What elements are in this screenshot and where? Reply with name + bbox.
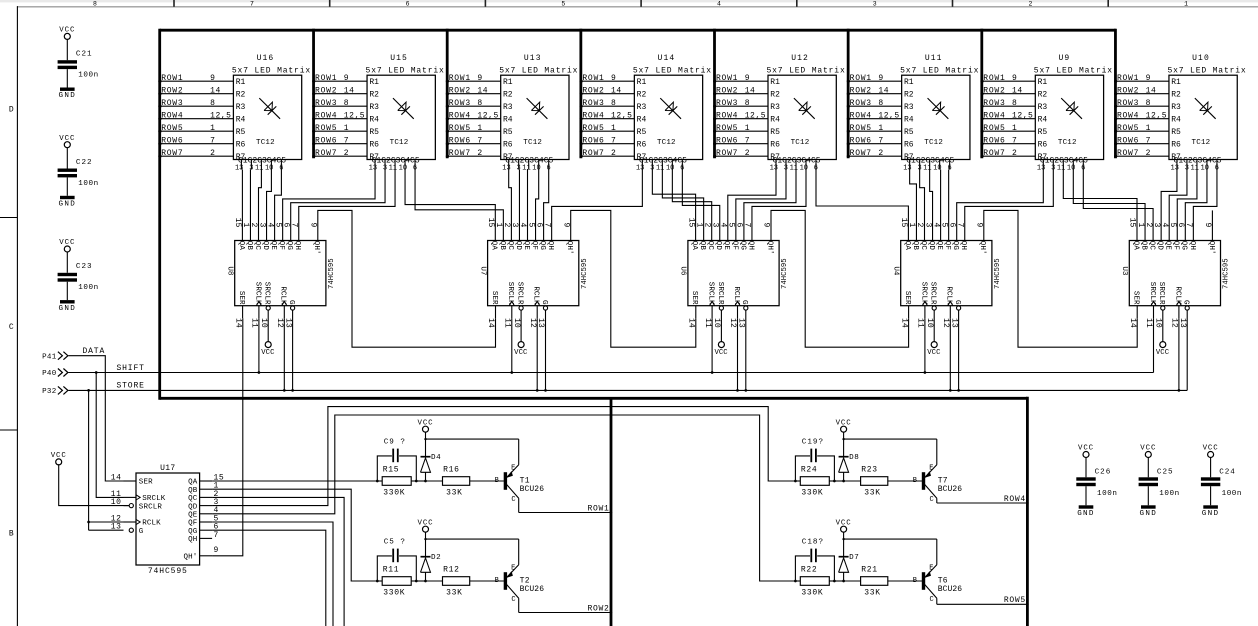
svg-text:9: 9 [1203,223,1212,228]
svg-text:9: 9 [210,74,215,83]
pin U8 SRCLR with bubble to VCC [261,306,275,357]
wire U17 QE to T6 input [212,415,795,581]
svg-text:SER: SER [1132,291,1140,305]
svg-text:33K: 33K [446,588,463,597]
svg-text:QE: QE [722,241,730,251]
svg-text:33K: 33K [446,488,463,497]
svg-text:R3: R3 [369,103,379,112]
svg-text:U12: U12 [791,54,809,63]
transistor T2 BCU26 PNP [495,564,545,604]
svg-text:U10: U10 [1192,54,1210,63]
pin stub U9 C5 [1082,160,1084,170]
frame column ticks [173,0,175,7]
svg-text:ROW6: ROW6 [1117,136,1139,145]
wire U12 C1 to U6 QE [728,170,776,241]
svg-text:E: E [929,464,933,472]
svg-text:R3: R3 [1171,103,1181,112]
wire ROW1 to U9 R1 [980,74,1047,87]
VCC symbol at T6 [836,519,852,539]
pin U17 G bubble [129,528,133,532]
svg-text:12,5: 12,5 [477,111,498,120]
svg-text:11: 11 [923,165,931,173]
svg-text:ROW7: ROW7 [1117,149,1139,158]
svg-text:QD: QD [927,241,935,251]
wire U13 C5 to U7 QG [544,170,549,241]
svg-text:14: 14 [878,86,889,95]
pin stub U12 C5 [815,160,817,170]
svg-text:10: 10 [1201,165,1209,173]
wire U11 C4 to U4 QE [940,170,942,241]
svg-text:D4: D4 [431,454,441,462]
svg-text:DATA: DATA [83,347,106,356]
svg-text:ROW1: ROW1 [1117,74,1139,83]
svg-text:C24: C24 [1219,469,1236,477]
wire U9 C1 to U4 QG [957,170,1044,241]
svg-text:13: 13 [1171,165,1179,173]
svg-text:C26: C26 [1095,469,1112,477]
shift register U7 74HC595 [478,218,589,328]
wire U10 C4 to U3 QG [1185,170,1207,241]
svg-text:U8: U8 [226,266,234,276]
svg-text:ROW3: ROW3 [850,99,872,108]
svg-text:7: 7 [1012,136,1017,145]
svg-text:14: 14 [111,473,122,482]
ground below C26 [1079,505,1094,508]
svg-text:12,5: 12,5 [210,111,231,120]
wire U16 C5 to U8 QE [275,170,282,241]
svg-text:QG: QG [285,241,293,251]
wire ROW3 to U13 R3 [446,99,513,112]
svg-text:R6: R6 [904,141,914,150]
wire U10 C1 to U3 QD [1161,170,1177,241]
wire U10 C5 to U3 QH [1193,170,1217,241]
svg-text:GND: GND [1077,510,1095,518]
wire U15 C4 to U7 QA [405,170,495,241]
svg-text:1: 1 [1184,0,1188,7]
wire ROW4 to U13 R4 [446,111,513,124]
wire R16 to T1 base [470,480,504,482]
connector P40 [42,369,68,379]
svg-text:QH: QH [293,241,301,250]
wire ROW4 to U15 R4 [312,111,379,124]
svg-text:11: 11 [389,165,397,173]
wire U9 C4 to U3 QB [1073,170,1145,241]
capacitor C26 100n [1076,469,1117,498]
svg-text:2: 2 [745,149,750,158]
svg-text:10: 10 [259,318,268,328]
VCC symbol for C25 [1145,452,1151,458]
svg-text:GND: GND [59,305,77,313]
svg-text:ROW4: ROW4 [1004,495,1026,504]
pin U7 G bubble [543,306,547,310]
svg-text:B: B [9,530,14,539]
wire T6 emitter to VCC rail [936,539,938,565]
svg-text:BCU26: BCU26 [938,485,963,494]
capacitor C23 100n [58,273,77,276]
LED matrix U12 5x7 TC12 [767,54,846,172]
svg-text:R4: R4 [1038,116,1048,125]
VCC symbol at T7 [836,419,852,439]
svg-text:VCC: VCC [1156,349,1170,357]
svg-text:330K: 330K [383,488,405,497]
svg-text:C5 ?: C5 ? [384,539,406,547]
pin stub U16 C3 [260,160,262,170]
svg-text:10: 10 [532,165,540,173]
svg-text:2: 2 [1146,149,1151,158]
svg-text:1: 1 [210,124,215,133]
svg-text:R7: R7 [503,153,513,162]
svg-text:TC12: TC12 [924,139,943,147]
svg-text:R6: R6 [503,141,513,150]
wire U16 C3 to U8 QC [259,170,262,241]
page top gray edge [0,0,1258,2]
svg-text:SER: SER [690,291,698,305]
svg-text:G: G [1182,300,1190,305]
svg-text:1: 1 [878,124,883,133]
svg-text:QC: QC [506,241,514,251]
svg-text:VCC: VCC [1078,445,1094,453]
svg-text:7: 7 [1146,136,1151,145]
svg-text:QH: QH [188,536,197,544]
capacitor C24 100n [1201,469,1242,498]
wire ROW1 to U13 R1 [446,74,513,87]
svg-text:QB: QB [1139,241,1147,251]
svg-text:R3: R3 [770,103,780,112]
wire U10 C2 to U3 QE [1169,170,1187,241]
wire cascade U4 QH' to U3 SER [984,210,1137,347]
svg-text:2: 2 [611,149,616,158]
wire U15 C2 to U8 QG [291,170,385,241]
svg-text:8: 8 [477,99,482,108]
svg-text:1: 1 [477,124,482,133]
svg-text:G: G [740,300,748,305]
svg-text:QH: QH [746,241,754,250]
svg-text:2: 2 [878,149,883,158]
VCC symbol for C24 [1208,452,1214,458]
svg-text:5: 5 [561,0,565,7]
frame top border line [17,6,1258,7]
resistor R12 33K [426,565,470,597]
svg-text:R7: R7 [1038,153,1048,162]
svg-text:SRCLR: SRCLR [263,282,271,305]
pin stub U17 QC [200,496,213,498]
wire ROW5 to U10 R5 [1114,124,1181,137]
svg-text:QE: QE [935,241,943,251]
svg-text:R1: R1 [1171,78,1181,87]
wire STORE line [69,310,1188,392]
wires matrix columns to U3 inputs [1063,170,1217,241]
wire P32 branch to U17 RCLK and G [87,390,123,530]
svg-text:GND: GND [1140,510,1158,518]
svg-text:C: C [9,323,14,332]
svg-text:100n: 100n [1159,490,1179,498]
svg-text:ROW1: ROW1 [582,74,604,83]
wire T7 collector to ROW4 [937,495,1029,504]
capacitor C19 ? [795,439,834,481]
pin stub U6 SRCLK [711,306,713,319]
LED matrix U13 5x7 TC12 [499,54,578,172]
svg-text:14: 14 [1012,86,1023,95]
svg-text:14: 14 [745,86,756,95]
wire ROW7 to U14 R7 [579,149,646,162]
pin stub U15 C1 [374,160,376,170]
wire U11 C3 to U4 QD [930,170,933,241]
pin stub U17 QE [200,513,213,515]
svg-text:10: 10 [265,165,273,173]
svg-text:15: 15 [486,218,495,228]
svg-text:13: 13 [636,165,644,173]
svg-text:9: 9 [344,74,349,83]
pin U6 G bubble [744,306,748,310]
svg-text:VCC: VCC [836,519,852,527]
svg-text:VCC: VCC [59,239,75,247]
LED matrix U11 5x7 TC12 [900,54,979,172]
svg-text:QE: QE [188,512,198,520]
pin stub U14 C3 [661,160,663,170]
svg-text:3: 3 [873,0,877,7]
svg-text:74HC595: 74HC595 [994,258,1002,289]
wire ROW2 to U11 R2 [847,86,914,99]
svg-text:14: 14 [344,86,355,95]
wire U16 C2 to U8 QB [249,170,251,241]
svg-text:VCC: VCC [714,349,728,357]
svg-text:C18?: C18? [802,539,824,547]
svg-text:14: 14 [611,86,622,95]
wire C24 to GND [1210,486,1212,505]
svg-text:RCLK: RCLK [279,286,287,305]
svg-text:ROW7: ROW7 [716,149,738,158]
svg-text:TC12: TC12 [390,139,409,147]
svg-text:ROW1: ROW1 [716,74,738,83]
svg-text:9: 9 [1012,74,1017,83]
pin stub U9 C3 [1062,160,1064,170]
svg-text:33K: 33K [864,588,881,597]
wire U10 C3 to U3 QF [1177,170,1197,241]
svg-text:SER: SER [139,479,153,487]
svg-text:12,5: 12,5 [745,111,766,120]
svg-text:GND: GND [59,92,77,100]
pin stub U4 SER [908,306,910,319]
svg-text:R1: R1 [369,78,379,87]
svg-text:ROW4: ROW4 [161,111,183,120]
bus ROW[1..7] top rail [160,29,1116,32]
svg-text:C25: C25 [1157,469,1174,477]
svg-text:ROW4: ROW4 [716,111,738,120]
svg-text:ROW5: ROW5 [1004,596,1026,605]
svg-text:2: 2 [1028,0,1032,7]
svg-text:11: 11 [656,165,664,173]
wire U15 C3 to U8 QH [299,170,395,241]
resistor R11 330K [376,565,427,597]
pin stub U6 SER [695,306,697,319]
wire U14 C1 to U7 QH [552,170,643,241]
wire T7 emitter to VCC rail [936,439,938,465]
pin stub U10 C2 [1186,160,1188,170]
pin stub U9 C2 [1052,160,1054,170]
wire VCC rail to T2 emitter [426,538,519,540]
wire VCC to C24 [1210,458,1212,478]
svg-text:9: 9 [477,74,482,83]
svg-text:8: 8 [611,99,616,108]
wire ROW5 to U9 R5 [980,124,1047,137]
pin stub U16 C2 [250,160,252,170]
svg-text:ROW5: ROW5 [449,124,471,133]
svg-text:ROW1: ROW1 [850,74,872,83]
pin stub U17 QB [200,488,213,490]
svg-text:11: 11 [522,165,530,173]
svg-text:9: 9 [1146,74,1151,83]
svg-text:RCLK: RCLK [1173,286,1181,305]
svg-text:SRCLR: SRCLR [139,503,163,511]
svg-text:QD: QD [188,503,198,511]
wire U14 C2 to U6 QA [652,170,695,241]
svg-text:QG: QG [1180,241,1188,251]
svg-text:QD: QD [514,241,522,251]
wire ROW3 to U15 R3 [312,99,379,112]
svg-text:QC: QC [188,495,198,503]
svg-text:1: 1 [611,124,616,133]
svg-text:ROW7: ROW7 [315,149,337,158]
wire ROW4 to U9 R4 [980,111,1047,124]
svg-text:R1: R1 [637,78,647,87]
svg-text:R4: R4 [369,116,379,125]
wire U13 C3 to U7 QE [527,170,529,241]
pin stub U10 C5 [1216,160,1218,170]
wire ROW7 to U16 R7 [158,149,245,162]
svg-text:ROW3: ROW3 [449,99,471,108]
wire ROW2 to U16 R2 [158,86,245,99]
svg-text:ROW2: ROW2 [716,86,738,95]
svg-text:D2: D2 [431,554,441,562]
svg-text:VCC: VCC [51,452,67,460]
svg-text:U6: U6 [679,266,687,276]
svg-text:100n: 100n [1097,490,1117,498]
svg-text:14: 14 [687,318,696,328]
svg-text:E: E [511,464,515,472]
svg-text:C9 ?: C9 ? [384,439,406,447]
svg-text:2: 2 [210,149,215,158]
svg-text:12,5: 12,5 [1012,111,1033,120]
svg-text:QA: QA [903,241,911,251]
svg-text:R15: R15 [383,465,400,474]
bus ROW bar at matrix 5 [713,29,716,158]
svg-text:E: E [511,564,515,572]
wire U16 C1 to U8 QA [241,170,243,241]
svg-text:ROW1: ROW1 [587,504,609,513]
pin stub U16 C5 [280,160,282,170]
resistor R15 330K [376,465,427,497]
svg-text:SRCLK: SRCLK [707,282,715,305]
pin stub U17 QA [200,480,213,482]
shift register U4 74HC595 [892,218,1003,328]
svg-text:C23: C23 [76,263,93,271]
svg-text:7: 7 [477,136,482,145]
pin stub U13 C4 [538,160,540,170]
svg-text:QF: QF [943,241,951,251]
wire ROW2 to U9 R2 [980,86,1047,99]
wire U14 C5 to U6 QD [682,170,719,241]
svg-text:11: 11 [916,318,925,328]
svg-text:ROW3: ROW3 [1117,99,1139,108]
svg-text:ROW2: ROW2 [1117,86,1139,95]
svg-text:7: 7 [611,136,616,145]
wire ROW3 to U9 R3 [980,99,1047,112]
svg-text:R4: R4 [904,116,914,125]
svg-text:U7: U7 [478,266,486,275]
diode D8 [839,439,860,481]
svg-text:100n: 100n [78,284,98,292]
svg-text:QD: QD [714,241,722,251]
pin stub U15 C4 [404,160,406,170]
svg-text:8: 8 [745,99,750,108]
wire ROW4 to U12 R4 [713,111,780,124]
svg-text:C: C [929,596,933,604]
pin stub U13 C2 [518,160,520,170]
svg-text:QH': QH' [565,241,573,255]
pin U3 G bubble [1185,306,1189,310]
svg-text:11: 11 [703,318,712,328]
svg-text:100n: 100n [1222,490,1242,498]
pin stub U4 RCLK [949,306,951,319]
wire R12 to T2 base [470,580,504,582]
wire U12 C5 to U4 QA [816,170,908,241]
svg-text:B: B [495,477,499,485]
wires matrix columns to U4 inputs [816,170,1053,241]
svg-text:U9: U9 [1059,54,1071,63]
svg-text:R2: R2 [770,91,780,100]
pin stub U12 C1 [775,160,777,170]
svg-text:5x7 LED Matrix: 5x7 LED Matrix [900,66,979,75]
svg-text:QH: QH [959,241,967,250]
diode D2 [421,539,442,581]
svg-text:ROW4: ROW4 [582,111,604,120]
svg-text:R24: R24 [801,465,818,474]
wire ROW2 to U15 R2 [312,86,379,99]
wire ROW2 to U14 R2 [579,86,646,99]
svg-text:GND: GND [59,201,77,209]
capacitor C21 100n [58,60,77,63]
svg-text:ROW3: ROW3 [716,99,738,108]
svg-text:R2: R2 [236,91,246,100]
wire ROW2 to U10 R2 [1114,86,1181,99]
svg-text:R5: R5 [1038,128,1048,137]
bus ROW bar at matrix 4 [579,29,582,158]
wire U17 QF to ROW6 driver (off page) [212,522,333,626]
wire ROW6 to U14 R6 [579,136,646,149]
svg-text:ROW4: ROW4 [449,111,471,120]
svg-text:C: C [511,496,515,504]
wire ROW6 to U16 R6 [158,136,245,149]
svg-text:R2: R2 [904,91,914,100]
svg-text:QH: QH [1188,241,1196,250]
VCC symbol at T2 [417,519,433,539]
transistor T1 BCU26 PNP [495,464,545,504]
resistor R22 330K [794,565,845,597]
svg-text:U14: U14 [658,54,676,63]
pin stub U10 C3 [1196,160,1198,170]
pin stub U11 C4 [939,160,941,170]
svg-text:ROW5: ROW5 [161,124,183,133]
svg-text:13: 13 [903,165,911,173]
svg-text:P40: P40 [42,370,57,378]
svg-text:ROW6: ROW6 [983,136,1005,145]
pin stub U7 SRCLK [511,306,513,319]
svg-text:7: 7 [250,0,254,7]
capacitor C22 100n [58,169,77,172]
wire ROW6 to U9 R6 [980,136,1047,149]
svg-text:15: 15 [686,218,695,228]
svg-text:ROW1: ROW1 [161,74,183,83]
